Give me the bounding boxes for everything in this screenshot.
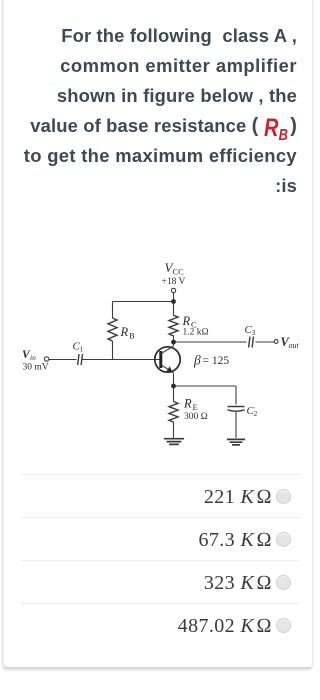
terminal Vcc — [171, 288, 175, 292]
ground below RE — [164, 439, 184, 445]
label Vcc — [165, 260, 185, 277]
wire RE bottom to ground — [173, 422, 175, 438]
terminal Vout — [274, 340, 278, 344]
capacitor C3 — [249, 337, 254, 348]
wire Vin terminal to C1 — [49, 359, 77, 361]
transistor Q1 base bar — [159, 351, 162, 368]
node emitter/RE/C2 junction — [171, 384, 176, 389]
svg-text:+18 V: +18 V — [162, 277, 186, 287]
svg-text:R: R — [183, 397, 192, 411]
svg-text:R: R — [182, 314, 191, 328]
resistor RB — [108, 318, 117, 341]
label C1 — [73, 341, 84, 354]
label beta = 125 — [193, 353, 229, 368]
svg-text:E: E — [193, 402, 198, 412]
resistor RE — [169, 402, 178, 423]
wire C1 to base — [83, 342, 174, 360]
wire Vcc terminal to node1 — [173, 293, 175, 302]
wire collector node to C3 — [174, 341, 247, 343]
svg-text:3: 3 — [252, 328, 256, 337]
svg-text:out: out — [289, 341, 300, 350]
wire emitter node to C2 top — [174, 386, 237, 405]
svg-text:B: B — [129, 331, 135, 341]
svg-text:1: 1 — [80, 345, 84, 354]
label RE — [183, 397, 198, 413]
svg-text:1.2 kΩ: 1.2 kΩ — [183, 328, 209, 338]
label C3 — [245, 324, 256, 337]
wire node1 to RB top — [113, 302, 174, 319]
svg-text:CC: CC — [173, 267, 185, 277]
wire emitter node to RE top — [173, 386, 175, 402]
svg-text:R: R — [120, 325, 129, 339]
wire C3 to Vout terminal — [256, 341, 275, 343]
node collector/C3 junction — [171, 340, 176, 345]
capacitor C2 — [228, 407, 245, 412]
label C2 — [247, 405, 258, 418]
resistor RC — [169, 315, 178, 336]
wire C2 bottom to ground — [235, 412, 237, 439]
ground below C2 — [227, 439, 245, 445]
svg-text:30 mV: 30 mV — [23, 363, 49, 373]
wire node1 to RC top — [173, 302, 175, 316]
label Vin — [22, 349, 36, 362]
wire RB bottom to base wire — [112, 341, 114, 360]
capacitor C1 — [78, 354, 83, 365]
wire RC bottom to collector node — [173, 335, 175, 342]
label RC — [182, 314, 198, 330]
transistor Q1 circle — [155, 347, 180, 372]
svg-text:= 125: = 125 — [203, 355, 230, 367]
svg-text:2: 2 — [254, 409, 258, 418]
label RB — [120, 325, 136, 341]
node Vcc/RB/RC junction — [171, 299, 176, 304]
svg-text:in: in — [30, 353, 36, 362]
transistor Q1 emitter lead — [162, 365, 174, 372]
transistor Q1 collector lead — [161, 346, 174, 354]
svg-text:β: β — [193, 353, 201, 368]
terminal Vin — [44, 357, 48, 361]
label Vout — [281, 335, 300, 350]
transistor Q1 emitter arrowhead — [166, 366, 173, 373]
svg-text:300 Ω: 300 Ω — [184, 412, 208, 422]
wire emitter to emitter node — [173, 373, 175, 386]
